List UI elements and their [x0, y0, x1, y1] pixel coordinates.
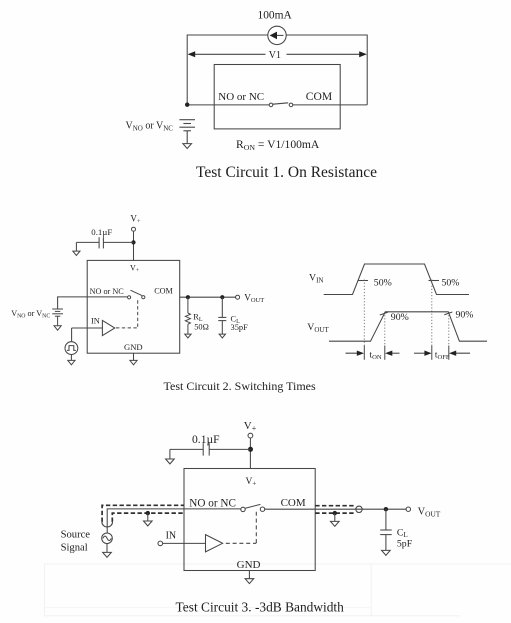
ground (shield right): [331, 521, 340, 526]
capacitor C3 0.1uF: [170, 443, 251, 459]
shield dashed lower right: [315, 512, 355, 514]
arrow tOFF left: [414, 351, 432, 356]
ground (RL): [185, 334, 191, 338]
battery VNO/VNC (C2): [52, 309, 63, 326]
DUT box U2: [87, 260, 180, 353]
wire switch output: [293, 104, 367, 106]
ground (U2 GND): [130, 360, 137, 364]
DUT box U3: [184, 469, 315, 571]
svg-text:IN: IN: [91, 317, 100, 326]
node V+ junction: [131, 240, 135, 244]
svg-text:Test Circuit 2. Switching Time: Test Circuit 2. Switching Times: [164, 379, 317, 393]
arrow tON right: [385, 351, 399, 356]
svg-text:50Ω: 50Ω: [194, 322, 209, 331]
svg-text:COM: COM: [154, 287, 173, 296]
svg-text:5pF: 5pF: [397, 538, 413, 549]
dashed control line S2: [116, 300, 138, 328]
shield dashed upper right: [315, 505, 355, 507]
svg-text:VOUT: VOUT: [244, 292, 264, 304]
svg-text:0.1µF: 0.1µF: [91, 227, 112, 237]
coax end loop right: [356, 506, 362, 512]
svg-text:COM: COM: [306, 90, 332, 103]
svg-text:VOUT: VOUT: [307, 322, 329, 334]
svg-text:NO or NC: NO or NC: [218, 91, 264, 103]
battery V_NO/V_NC: [179, 120, 195, 144]
wire shield gnd stem right: [334, 513, 336, 521]
svg-text:Source: Source: [61, 530, 91, 541]
terminal V+: [132, 227, 136, 231]
DUT box U1: [214, 65, 340, 129]
dotted line VOUT 90% fall: [448, 312, 450, 346]
ground (U3 GND): [245, 579, 254, 584]
dimension arrow V1: [188, 51, 367, 57]
dotted line VIN 50% fall: [431, 280, 433, 346]
svg-text:90%: 90%: [391, 312, 409, 323]
wire COM output (C3): [265, 508, 407, 510]
svg-text:Signal: Signal: [61, 542, 88, 553]
svg-text:Test Circuit 3. -3dB Bandwidth: Test Circuit 3. -3dB Bandwidth: [176, 600, 345, 615]
svg-text:50%: 50%: [374, 277, 392, 288]
wire switch input: [187, 104, 269, 106]
svg-text:tON: tON: [370, 350, 382, 362]
node shield gnd right: [333, 511, 337, 515]
svg-text:50%: 50%: [442, 277, 460, 288]
ground (C3 cap): [166, 459, 175, 464]
ground (CL C3): [382, 550, 391, 555]
svg-text:35pF: 35pF: [231, 323, 249, 332]
ground (battery C2): [54, 326, 61, 330]
wire IN: [72, 328, 103, 342]
svg-text:GND: GND: [124, 342, 143, 352]
wire top loop: [187, 35, 367, 105]
svg-text:V1: V1: [269, 50, 281, 61]
arrow tON left: [346, 351, 365, 356]
switch S2: [128, 290, 145, 299]
wire GND stem (U2): [133, 353, 135, 360]
svg-text:VIN: VIN: [309, 273, 323, 285]
svg-text:NO or NC: NO or NC: [189, 497, 236, 509]
wire V+ to box (C3): [249, 438, 251, 469]
op-amp buffer A2: [102, 320, 114, 335]
svg-text:RON = V1/100mA: RON = V1/100mA: [236, 138, 320, 152]
switch S3: [241, 504, 265, 511]
tick 90% rise: [380, 312, 388, 315]
wire COM output: [180, 296, 236, 298]
wire battery to switch: [58, 297, 128, 309]
VIN trace: [324, 264, 469, 295]
terminal IN (C3): [158, 541, 163, 546]
capacitor CL (C3): [380, 509, 392, 550]
capacitor CL (C2): [218, 297, 226, 334]
dashed control line S3: [226, 512, 256, 544]
svg-text:VNO or VNC: VNO or VNC: [11, 309, 50, 320]
wire shield gnd stem left: [147, 513, 149, 521]
node RL tap: [186, 295, 190, 299]
svg-text:VNO or VNC: VNO or VNC: [126, 121, 174, 133]
node A: [185, 103, 189, 107]
svg-text:0.1µF: 0.1µF: [192, 433, 220, 446]
switch S1: [269, 103, 293, 107]
wire: [45, 564, 511, 616]
node shield gnd left: [146, 511, 150, 515]
shield dashed inner left: [112, 513, 184, 522]
svg-text:VOUT: VOUT: [418, 506, 441, 518]
svg-text:90%: 90%: [456, 310, 474, 321]
tick 50% fall: [429, 280, 440, 282]
arrow tOFF right: [449, 351, 470, 356]
svg-text:IN: IN: [166, 530, 177, 541]
capacitor C2 0.1uF: [76, 237, 133, 251]
svg-text:V+: V+: [130, 214, 141, 226]
ground (CL C2): [219, 334, 225, 338]
VOUT trace: [329, 312, 487, 341]
svg-text:V+: V+: [130, 264, 140, 274]
terminal VOUT (C2): [236, 295, 240, 299]
svg-text:V+: V+: [246, 477, 257, 488]
svg-text:NO or NC: NO or NC: [90, 287, 125, 296]
node V+ junction (C3): [248, 447, 253, 452]
shield dashed outer left: [102, 505, 184, 522]
op-amp buffer A3: [206, 535, 223, 552]
coax end cup left: [102, 522, 113, 527]
wire signal to switch: [107, 509, 241, 533]
ground (battery V1): [183, 144, 192, 149]
source signal generator VG3: [102, 533, 113, 553]
tick 90% fall: [444, 312, 452, 315]
node CL tap: [220, 295, 224, 299]
dotted line VIN 50% rise: [363, 280, 365, 346]
svg-text:COM: COM: [281, 497, 306, 509]
dotted line VOUT 90% rise: [384, 312, 386, 346]
wire GND stem (U3): [248, 571, 250, 579]
current source I1: [268, 26, 286, 44]
pulse source VG2: [65, 342, 78, 361]
ground (shield left): [144, 521, 153, 526]
terminal VOUT (C3): [406, 507, 410, 511]
wire IN (C3): [163, 542, 206, 544]
svg-text:100mA: 100mA: [258, 10, 293, 22]
svg-text:tOFF: tOFF: [435, 350, 450, 362]
svg-text:V+: V+: [244, 420, 257, 433]
ground (VG3): [103, 552, 112, 557]
node CL tap (C3): [384, 507, 388, 511]
svg-text:Test Circuit 1. On Resistance: Test Circuit 1. On Resistance: [196, 164, 377, 181]
svg-text:GND: GND: [237, 559, 261, 571]
tick 50% rise: [358, 280, 369, 282]
terminal V+ (C3): [248, 433, 253, 438]
wire V+ to box: [133, 231, 135, 260]
ground (C2): [73, 251, 80, 255]
resistor RL: [185, 297, 190, 334]
ground (VG2): [68, 360, 75, 364]
